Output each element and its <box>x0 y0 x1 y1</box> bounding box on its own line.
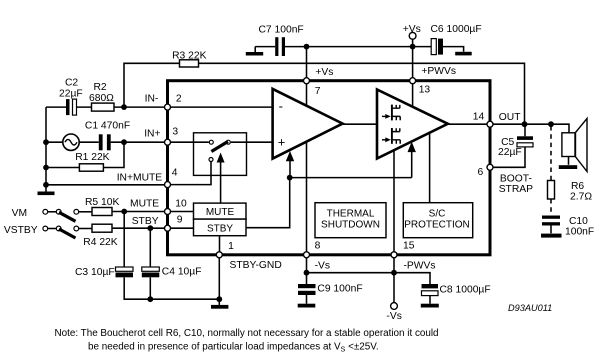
svg-text:MUTE: MUTE <box>130 199 159 210</box>
svg-text:3: 3 <box>172 126 178 137</box>
svg-text:D93AU011: D93AU011 <box>508 303 552 313</box>
svg-text:100nF: 100nF <box>565 226 594 237</box>
svg-text:R1 22K: R1 22K <box>75 152 109 163</box>
svg-text:STRAP: STRAP <box>499 184 533 195</box>
svg-text:R4 22K: R4 22K <box>83 237 117 248</box>
svg-text:C2: C2 <box>65 78 78 89</box>
svg-text:-Vs: -Vs <box>386 311 401 322</box>
svg-text:+PWVs: +PWVs <box>421 66 456 77</box>
svg-text:9: 9 <box>177 214 183 225</box>
svg-text:STBY: STBY <box>132 216 159 227</box>
svg-text:-Vs: -Vs <box>315 261 330 272</box>
svg-text:R2: R2 <box>94 82 107 93</box>
svg-text:C4 10µF: C4 10µF <box>162 267 202 278</box>
svg-text:8: 8 <box>315 241 321 252</box>
svg-text:-PWVs: -PWVs <box>404 261 436 272</box>
svg-text:PROTECTION: PROTECTION <box>404 220 470 231</box>
svg-text:SHUTDOWN: SHUTDOWN <box>321 220 380 231</box>
svg-text:VM: VM <box>12 208 27 219</box>
svg-text:22µF: 22µF <box>498 147 522 158</box>
svg-text:S/C: S/C <box>429 209 446 220</box>
svg-text:C6 1000µF: C6 1000µF <box>431 24 482 35</box>
svg-text:C1 470nF: C1 470nF <box>85 121 130 132</box>
svg-text:13: 13 <box>419 85 431 96</box>
svg-text:14: 14 <box>473 112 485 123</box>
svg-text:680Ω: 680Ω <box>89 93 114 104</box>
svg-text:IN-: IN- <box>145 93 159 104</box>
svg-text:+: + <box>278 134 286 149</box>
svg-text:1: 1 <box>228 241 234 252</box>
svg-text:C7 100nF: C7 100nF <box>259 24 304 35</box>
svg-text:BOOT-: BOOT- <box>500 173 532 184</box>
svg-text:C3 10µF: C3 10µF <box>75 267 115 278</box>
svg-text:7: 7 <box>315 86 321 97</box>
svg-text:C9 100nF: C9 100nF <box>317 284 362 295</box>
svg-text:2.7Ω: 2.7Ω <box>570 191 592 202</box>
svg-text:+Vs: +Vs <box>403 24 421 35</box>
svg-text:2: 2 <box>176 94 182 105</box>
svg-text:THERMAL: THERMAL <box>327 209 375 220</box>
svg-text:22µF: 22µF <box>59 89 83 100</box>
svg-text:STBY: STBY <box>207 223 233 234</box>
svg-text:15: 15 <box>403 240 415 251</box>
svg-text:6: 6 <box>478 167 484 178</box>
svg-text:R3 22K: R3 22K <box>172 51 206 62</box>
svg-text:STBY-GND: STBY-GND <box>230 260 282 271</box>
svg-text:10: 10 <box>175 198 187 209</box>
svg-text:be needed in presence of parti: be needed in presence of particular load… <box>88 341 379 353</box>
svg-text:VSTBY: VSTBY <box>4 225 38 236</box>
svg-text:IN+: IN+ <box>144 129 160 140</box>
svg-text:OUT: OUT <box>499 112 521 123</box>
svg-text:R5 10K: R5 10K <box>85 197 119 208</box>
svg-text:C8 1000µF: C8 1000µF <box>440 285 491 296</box>
svg-text:+Vs: +Vs <box>315 67 333 78</box>
svg-text:IN+MUTE: IN+MUTE <box>117 172 163 183</box>
svg-text:-: - <box>279 99 283 114</box>
svg-text:MUTE: MUTE <box>206 207 235 218</box>
svg-text:Note: The Boucherot cell R6, C: Note: The Boucherot cell R6, C10, normal… <box>55 328 439 339</box>
svg-text:4: 4 <box>172 167 178 178</box>
